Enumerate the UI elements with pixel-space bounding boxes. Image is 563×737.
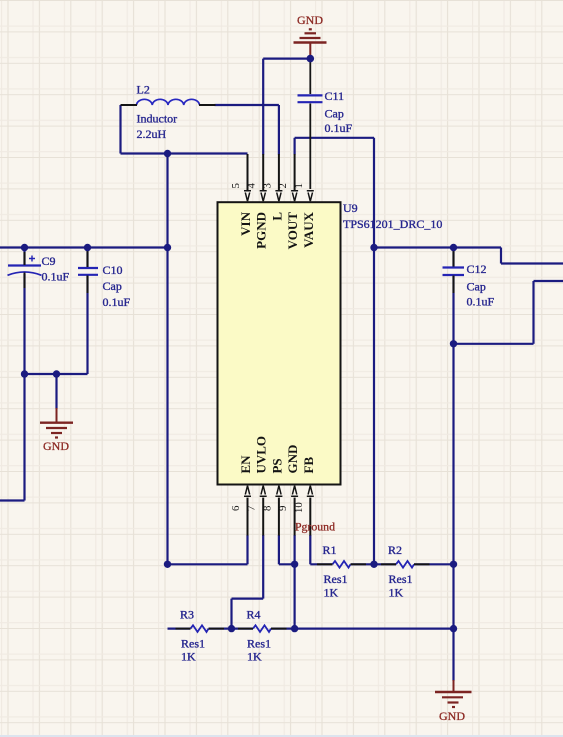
svg-text:5: 5: [230, 183, 242, 188]
svg-text:Res1: Res1: [181, 636, 205, 650]
svg-text:PS: PS: [269, 458, 284, 473]
svg-text:GND: GND: [297, 13, 323, 27]
svg-text:Cap: Cap: [325, 107, 344, 121]
svg-text:Pground: Pground: [295, 520, 335, 534]
svg-text:10: 10: [293, 502, 305, 513]
svg-text:0.1uF: 0.1uF: [325, 121, 353, 135]
svg-text:VOUT: VOUT: [285, 212, 300, 250]
svg-text:R1: R1: [323, 543, 337, 557]
svg-text:Res1: Res1: [389, 572, 413, 586]
svg-text:Res1: Res1: [247, 636, 271, 650]
svg-text:3: 3: [261, 183, 273, 188]
svg-text:1K: 1K: [181, 650, 196, 664]
svg-text:R4: R4: [247, 607, 261, 621]
svg-text:0.1uF: 0.1uF: [42, 270, 70, 284]
svg-text:C11: C11: [325, 89, 345, 103]
svg-text:GND: GND: [285, 445, 300, 474]
svg-text:1: 1: [293, 183, 305, 188]
svg-text:VIN: VIN: [238, 211, 253, 235]
svg-text:R3: R3: [180, 607, 194, 621]
svg-text:1K: 1K: [389, 586, 404, 600]
svg-text:L: L: [269, 212, 284, 221]
svg-text:Inductor: Inductor: [137, 112, 178, 126]
svg-text:UVLO: UVLO: [254, 436, 269, 474]
svg-text:Cap: Cap: [467, 280, 486, 294]
svg-text:U9: U9: [343, 201, 358, 215]
svg-text:FB: FB: [301, 457, 316, 474]
svg-text:9: 9: [277, 506, 289, 511]
svg-text:R2: R2: [388, 543, 402, 557]
svg-text:1K: 1K: [324, 586, 339, 600]
svg-text:VAUX: VAUX: [301, 211, 316, 247]
svg-text:7: 7: [246, 505, 258, 511]
svg-text:EN: EN: [238, 455, 253, 474]
svg-text:GND: GND: [439, 709, 465, 723]
svg-text:4: 4: [246, 182, 258, 188]
svg-text:Cap: Cap: [103, 279, 122, 293]
svg-text:0.1uF: 0.1uF: [103, 295, 131, 309]
svg-text:1K: 1K: [247, 650, 262, 664]
svg-text:TPS61201_DRC_10: TPS61201_DRC_10: [343, 217, 442, 231]
svg-text:Res1: Res1: [324, 572, 348, 586]
svg-text:C12: C12: [467, 262, 487, 276]
svg-text:6: 6: [230, 505, 242, 511]
svg-text:PGND: PGND: [254, 212, 269, 249]
svg-text:8: 8: [261, 506, 273, 511]
svg-text:GND: GND: [43, 439, 69, 453]
svg-text:0.1uF: 0.1uF: [467, 295, 495, 309]
svg-text:C9: C9: [42, 254, 56, 268]
svg-text:2: 2: [277, 183, 289, 188]
svg-text:2.2uH: 2.2uH: [137, 127, 167, 141]
svg-text:L2: L2: [137, 83, 150, 97]
svg-text:C10: C10: [103, 263, 123, 277]
